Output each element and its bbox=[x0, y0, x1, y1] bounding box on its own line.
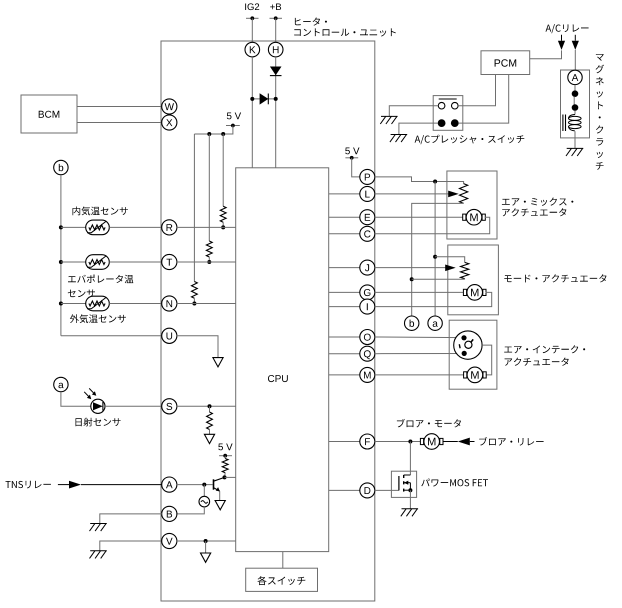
heater control unit box bbox=[161, 41, 375, 601]
wire closed contact to ground bbox=[399, 123, 438, 134]
wire b to U row bbox=[61, 335, 162, 337]
wire S to CPU bbox=[177, 405, 236, 407]
wire Q to intake switch bbox=[375, 353, 464, 355]
arrow AC relay 1 bbox=[558, 41, 565, 50]
pin G bbox=[360, 285, 375, 300]
arrow AC relay 2 bbox=[572, 41, 579, 50]
wire resistor to N row bbox=[193, 298, 195, 303]
label magnet clutch vertical bbox=[596, 54, 604, 61]
light arrow 1 bbox=[84, 392, 90, 398]
wire closed contact to PCM bbox=[459, 75, 509, 124]
switch contact closed 1 bbox=[438, 119, 446, 127]
clutch coil bbox=[569, 116, 582, 120]
wire BCM to X bbox=[77, 122, 162, 124]
air intake actuator box bbox=[449, 320, 497, 389]
junction on H line bbox=[274, 97, 278, 101]
label each-switch bbox=[257, 576, 305, 585]
wire +B to pin H bbox=[275, 18, 277, 42]
junction b-R bbox=[59, 225, 63, 229]
junction collector node bbox=[223, 475, 227, 479]
wire V junction down bbox=[205, 541, 207, 553]
label outside air temp sensor bbox=[70, 314, 126, 323]
photodiode D3 sun sensor bbox=[91, 399, 105, 413]
wire motor return to C bbox=[375, 217, 490, 234]
wire BCM to W bbox=[77, 106, 162, 108]
wire CPU to switch block bbox=[282, 552, 284, 569]
connector b mid bbox=[405, 316, 419, 330]
switch top bar bbox=[439, 98, 457, 100]
arrow J wiper bbox=[445, 265, 456, 272]
wire N to CPU bbox=[177, 303, 236, 305]
wire TNS stub bbox=[58, 484, 69, 486]
label air intake actuator line2 bbox=[505, 358, 569, 366]
wire CPU to L bbox=[329, 193, 360, 195]
wire CPU to M bbox=[329, 374, 360, 376]
wire resistor to ground bbox=[209, 430, 211, 435]
wire CPU to C bbox=[329, 233, 360, 235]
pin Q bbox=[360, 346, 375, 361]
junction on K line bbox=[250, 97, 254, 101]
node 5V rail bbox=[227, 113, 241, 120]
resistor R-pullup bbox=[220, 206, 226, 222]
pin S bbox=[162, 399, 177, 414]
thermistor TH2 evaporator bbox=[86, 255, 110, 270]
wire O to intake switch bbox=[375, 336, 464, 339]
wire F to blower motor bbox=[375, 441, 421, 443]
wire G to motor bbox=[375, 291, 464, 293]
junction S pulldown bbox=[208, 404, 212, 408]
pin X bbox=[162, 115, 177, 130]
resistor S-pulldown bbox=[207, 412, 213, 430]
signal ground S bbox=[204, 434, 214, 443]
label power MOS FET bbox=[421, 479, 488, 487]
pin W bbox=[162, 99, 177, 114]
arrow L wiper bbox=[448, 191, 459, 198]
contact dot 2 bbox=[572, 104, 579, 111]
wire 5V to P bbox=[352, 158, 360, 177]
wire resistor to T row bbox=[208, 257, 210, 262]
label evaporator temp sensor line2 bbox=[68, 290, 95, 298]
light arrow 2 bbox=[89, 388, 95, 394]
wire rail to T resistor bbox=[208, 134, 210, 241]
wire open contact to PCM bbox=[458, 75, 495, 106]
motor M3 intake bbox=[464, 374, 467, 376]
wire IG2 to pin K bbox=[251, 18, 253, 42]
pin K bbox=[245, 42, 260, 57]
thermistor TH1 inside air bbox=[86, 220, 110, 235]
wire CPU to I bbox=[329, 306, 360, 308]
wire rail to R resistor bbox=[222, 134, 224, 206]
wire b to thermistor N bbox=[61, 303, 86, 305]
ground pressure switch 2 bbox=[391, 134, 408, 136]
ground MOSFET bbox=[402, 508, 419, 510]
pin A bbox=[162, 477, 177, 492]
junction rail-R bbox=[221, 132, 225, 136]
resistor N-pullup bbox=[192, 282, 198, 299]
pin N bbox=[162, 296, 177, 311]
motor M1 air mix bbox=[463, 216, 466, 218]
wire L wiper bbox=[375, 193, 455, 195]
wire S to resistor bbox=[209, 406, 211, 412]
thermistor TH3 outside air bbox=[86, 296, 110, 311]
pin U bbox=[162, 328, 177, 343]
wire resistor to R row bbox=[222, 222, 224, 227]
wire arrow to magnet clutch bbox=[574, 50, 576, 70]
pin L bbox=[360, 186, 375, 201]
wire T to CPU bbox=[177, 261, 236, 263]
wire a line to mode pot bbox=[435, 257, 465, 263]
label CPU bbox=[268, 375, 288, 382]
label air mix actuator line1 bbox=[502, 198, 574, 206]
wire clutch internals bbox=[574, 85, 576, 91]
pin D bbox=[360, 483, 375, 498]
node +B bbox=[270, 4, 281, 11]
switch contact open 1 bbox=[438, 102, 445, 109]
wire V to CPU bbox=[177, 540, 236, 542]
arrow blower relay bbox=[458, 438, 470, 446]
wire clutch to ground bbox=[574, 131, 576, 148]
wire source to ground bbox=[409, 490, 411, 509]
motor M2 mode bbox=[464, 291, 467, 293]
wire thermistor to N bbox=[109, 303, 162, 305]
wire V to ground bbox=[100, 541, 162, 551]
wire E to motor bbox=[375, 216, 464, 218]
wire air mix pot bottom to b line bbox=[412, 203, 464, 316]
wire CPU to J bbox=[329, 267, 360, 269]
wire H to CPU bbox=[275, 57, 277, 168]
label sun sensor bbox=[76, 418, 121, 427]
label AC pressure switch bbox=[415, 135, 525, 145]
label evaporator temp sensor line1 bbox=[68, 275, 133, 284]
wire intake switch to motor bbox=[482, 345, 492, 375]
junction b-T bbox=[59, 260, 63, 264]
wire CPU to E bbox=[329, 216, 360, 218]
wire thermistor to R bbox=[109, 226, 162, 228]
wire CPU to F bbox=[329, 441, 360, 443]
wire b to thermistor R bbox=[61, 226, 86, 228]
ground V bbox=[90, 550, 107, 552]
resistor T-pullup bbox=[206, 241, 212, 257]
wire a to photodiode bbox=[61, 392, 91, 407]
diode D2 between K and H lines bbox=[252, 98, 275, 100]
air mix actuator box bbox=[447, 171, 497, 239]
wire J wiper bbox=[375, 267, 452, 269]
label heater control unit bbox=[295, 18, 327, 26]
pin B bbox=[162, 506, 177, 521]
MOSFET Q2 bbox=[398, 476, 400, 490]
switch contact closed 2 bbox=[451, 119, 459, 127]
node IG2 bbox=[245, 3, 259, 10]
pin E bbox=[360, 210, 375, 225]
wire lamp to B bbox=[177, 507, 205, 514]
wire photodiode to S bbox=[105, 405, 162, 407]
pin C bbox=[360, 226, 375, 241]
wire D to gate bbox=[375, 489, 399, 491]
pin J bbox=[360, 260, 375, 275]
ground B bbox=[90, 523, 107, 525]
junction rail-T bbox=[207, 132, 211, 136]
wire PCM to AC relay arrow bbox=[530, 50, 562, 58]
potentiometer VR1 bbox=[460, 184, 468, 204]
PCM box bbox=[481, 51, 530, 75]
junction b-mode bbox=[410, 277, 414, 281]
ground pressure switch 1 bbox=[381, 115, 398, 117]
label TNS relay bbox=[6, 481, 51, 489]
label inside air temp sensor bbox=[73, 207, 128, 216]
wire M to motor bbox=[375, 374, 464, 376]
connector a left bbox=[54, 377, 68, 391]
CPU U1 box bbox=[236, 168, 329, 552]
wire b common vertical bbox=[60, 175, 62, 336]
wire TNS to A bbox=[81, 484, 162, 486]
wire collector node to CPU bbox=[225, 476, 236, 478]
contact dot 1 bbox=[572, 90, 579, 97]
wire CPU to D bbox=[329, 489, 360, 491]
label A/C relay bbox=[546, 24, 589, 33]
BCM box bbox=[21, 95, 77, 133]
connector a mid bbox=[428, 316, 442, 330]
wire blower junction to MOSFET drain bbox=[409, 442, 411, 476]
label air intake actuator line1 bbox=[504, 345, 585, 353]
node 5V pin P bbox=[345, 148, 359, 155]
switch contact open 2 bbox=[452, 102, 459, 109]
transistor Q1 bbox=[213, 479, 215, 489]
junction b-N bbox=[59, 302, 63, 306]
pin O bbox=[360, 330, 375, 345]
power MOS FET box bbox=[391, 471, 416, 497]
wire motor to relay arrow bbox=[443, 441, 458, 443]
wire R to CPU bbox=[177, 226, 236, 228]
wire mode pot bottom to b line bbox=[464, 278, 466, 281]
wire 5V to resistor bbox=[224, 456, 226, 459]
connector b left bbox=[54, 160, 68, 174]
junction MOSFET source bbox=[408, 488, 412, 492]
wire resistor to collector node bbox=[224, 473, 227, 478]
rotary switch intake bbox=[454, 331, 482, 359]
diode D1 on +B line bbox=[270, 67, 282, 76]
resistor collector pullup bbox=[222, 459, 228, 473]
label PCM bbox=[495, 59, 517, 66]
label air mix actuator line2 bbox=[502, 208, 566, 216]
junction P a-line bbox=[433, 180, 437, 184]
wire motor return to I bbox=[375, 292, 492, 306]
wire K to CPU bbox=[251, 57, 253, 168]
AC pressure switch box bbox=[433, 96, 463, 131]
label blower relay bbox=[479, 437, 543, 446]
wire open contact to ground bbox=[389, 106, 438, 117]
junction a-mode bbox=[433, 255, 437, 259]
junction F-MOSFET bbox=[408, 440, 412, 444]
pin F bbox=[360, 434, 375, 449]
potentiometer VR2 bbox=[461, 262, 469, 278]
wire b to thermistor T bbox=[61, 261, 86, 263]
junction A-lamp bbox=[202, 483, 206, 487]
signal ground V bbox=[201, 553, 211, 562]
blower motor M4 bbox=[421, 441, 424, 443]
wire CPU to Q bbox=[329, 353, 360, 355]
signal ground emitter bbox=[215, 501, 225, 510]
ground clutch bbox=[567, 147, 584, 149]
lamp L1 illumination bbox=[203, 485, 205, 497]
clutch core bbox=[562, 115, 564, 132]
mode actuator box bbox=[448, 245, 499, 315]
wire CPU to G bbox=[329, 291, 360, 293]
wire 5V rail bbox=[194, 126, 233, 135]
junction V bbox=[204, 539, 208, 543]
wire rail to N resistor bbox=[193, 134, 195, 282]
label mode actuator bbox=[504, 274, 606, 282]
wire relay stub bbox=[470, 441, 475, 443]
switch block box bbox=[246, 568, 318, 591]
pin V bbox=[162, 533, 177, 548]
pin A clutch bbox=[568, 70, 582, 84]
pin I bbox=[360, 299, 375, 314]
wire CPU to O bbox=[329, 336, 360, 338]
wire B to ground bbox=[100, 514, 162, 524]
wire U to internal ground bbox=[177, 336, 218, 358]
label blower motor bbox=[397, 419, 461, 428]
node 5V transistor bbox=[218, 444, 232, 451]
pin R bbox=[162, 220, 177, 235]
wire a line vertical bbox=[434, 182, 436, 317]
wire thermistor to T bbox=[109, 261, 162, 263]
pin P bbox=[360, 169, 375, 184]
wire emitter to ground bbox=[219, 491, 221, 500]
pin T bbox=[162, 254, 177, 269]
label BCM bbox=[39, 111, 60, 118]
signal ground U bbox=[213, 358, 223, 367]
wire P to potentiometer bbox=[375, 177, 464, 184]
magnet clutch box bbox=[561, 70, 590, 138]
pin M bbox=[360, 367, 375, 382]
wire A to transistor base bbox=[177, 484, 213, 486]
arrow TNS bbox=[69, 481, 81, 489]
pin H bbox=[268, 42, 283, 57]
